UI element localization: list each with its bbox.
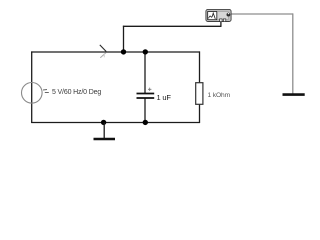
wire left vertical — [31, 51, 33, 123]
wire scope channel vertical lower — [123, 26, 125, 52]
scope terminal knob 2 — [223, 19, 225, 22]
wire capacitor branch bottom — [144, 98, 146, 123]
scope side connector nub — [227, 13, 231, 17]
wire resistor branch top — [199, 51, 201, 83]
wire capacitor branch top — [144, 52, 146, 93]
wire scope channel horizontal — [123, 25, 221, 27]
junction dot node A (scope tap) — [121, 49, 126, 54]
arrow connector on top wire — [100, 45, 106, 58]
svg-text:1 kOhm: 1 kOhm — [208, 92, 231, 99]
wire scope terminal drop — [220, 21, 222, 27]
ground symbol bottom — [94, 123, 116, 140]
scope terminal knob 1 — [220, 19, 223, 22]
wire scope ground horizontal (gray) — [231, 13, 293, 15]
ground symbol right (scope ground) — [283, 93, 305, 96]
wire resistor branch bottom — [199, 104, 201, 123]
svg-text:1 uF: 1 uF — [157, 93, 172, 102]
wire scope ground vertical (gray) — [292, 13, 294, 93]
capacitor polarity plus — [148, 88, 151, 91]
wire top horizontal — [31, 51, 200, 53]
AC voltage source V1 — [22, 83, 43, 104]
wire bottom horizontal — [31, 122, 200, 124]
oscilloscope XSC1 icon — [206, 9, 231, 21]
svg-text:5 V/60 Hz/0 Deg: 5 V/60 Hz/0 Deg — [52, 89, 101, 96]
junction dot capacitor top — [143, 49, 148, 54]
AC source sine mark — [43, 90, 49, 93]
junction dot ground tap — [101, 120, 106, 125]
junction dot capacitor bottom — [143, 120, 148, 125]
resistor R1 — [196, 83, 203, 105]
capacitor C1 — [137, 94, 155, 99]
